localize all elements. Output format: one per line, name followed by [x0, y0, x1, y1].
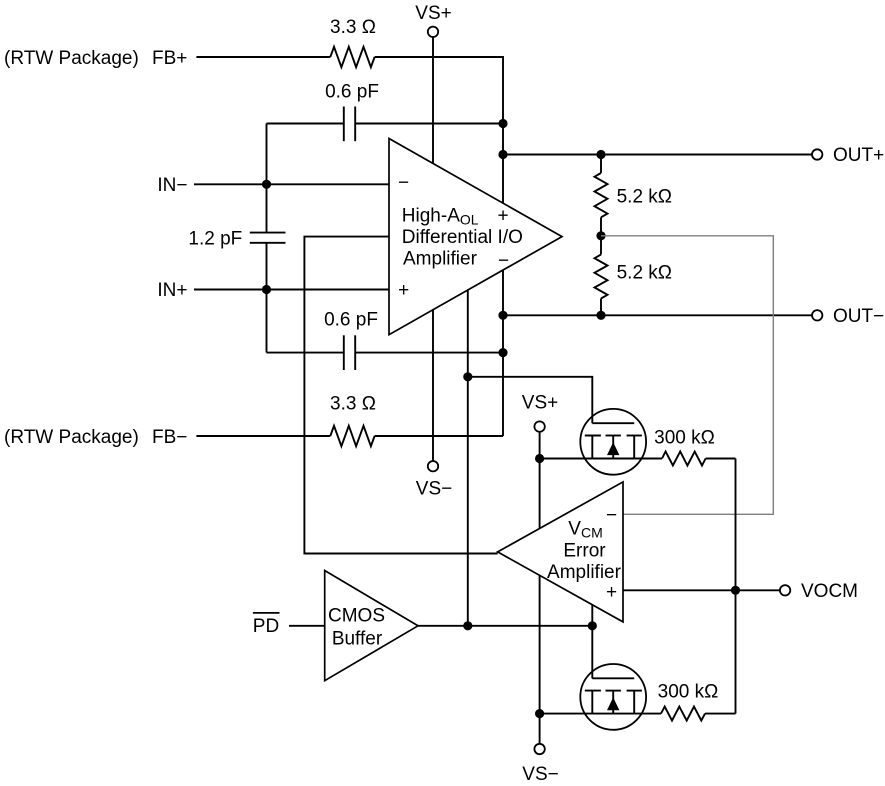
resistor R3 5.2 kohm	[600, 155, 602, 174]
capacitor C3 0.6 pF (plates)	[343, 335, 345, 370]
wire U2 enable / Q2 gate column	[591, 605, 593, 679]
junction FB+ node / OUT+ line	[498, 150, 507, 159]
svg-text:3.3 Ω: 3.3 Ω	[330, 17, 376, 38]
wire VS+ to Q1 source	[540, 458, 593, 460]
svg-text:(RTW Package): (RTW Package)	[4, 427, 139, 448]
svg-text:−: −	[498, 251, 509, 272]
svg-text:VS+: VS+	[522, 393, 558, 414]
wire IN- to U1 inverting input	[194, 183, 389, 185]
svg-text:0.6 pF: 0.6 pF	[325, 82, 379, 103]
wire OUT- node column from U1 - output down to FB-	[502, 270, 504, 436]
junction gate drive / Q1	[463, 372, 472, 381]
svg-text:Amplifier: Amplifier	[547, 562, 622, 583]
transistor Q2 (MOSFET switch, bottom)	[580, 664, 646, 730]
svg-text:(RTW Package): (RTW Package)	[4, 48, 139, 69]
junction buffer output / Q2 gate	[588, 621, 597, 630]
wire U1 power-down gate column	[467, 290, 469, 626]
wire VS- to Q2 source	[540, 713, 593, 715]
svg-text:+: +	[497, 206, 508, 227]
wire C1 left plate to IN- column	[267, 123, 344, 125]
svg-text:OUT+: OUT+	[833, 145, 884, 166]
resistor R6 300 kohm	[634, 713, 661, 715]
resistor R4 5.2 kohm	[600, 236, 602, 255]
svg-text:3.3 Ω: 3.3 Ω	[330, 394, 376, 415]
terminal OUT+	[812, 149, 822, 159]
terminal VOCM	[780, 585, 790, 595]
wire IN+ to U1 non-inverting input	[194, 289, 389, 291]
resistor R1 3.3 ohm	[330, 47, 374, 67]
svg-text:PD: PD	[253, 616, 279, 637]
svg-text:VS+: VS+	[415, 3, 451, 24]
svg-text:300 kΩ: 300 kΩ	[658, 682, 719, 703]
svg-text:IN−: IN−	[157, 175, 187, 196]
wire FB- input to R2	[196, 435, 330, 437]
wire U2 + input to VOCM terminal	[623, 589, 780, 591]
svg-text:VS−: VS−	[416, 479, 452, 500]
op-amp U1 High-AOL Differential I/O Amplifier	[389, 139, 562, 335]
svg-text:300 kΩ: 300 kΩ	[654, 428, 715, 449]
junction R3/R4 midpoint (VCM sense)	[596, 231, 605, 240]
wire VS+ to U1 top edge	[432, 37, 434, 163]
transistor Q1 (MOSFET switch, top)	[580, 409, 646, 475]
wire U3 output to gate nodes	[418, 625, 592, 627]
wire R1 to FB+/OUT+ node, corner down into U1 + output	[375, 57, 503, 203]
wire C3 right plate to FB-/OUT- node	[355, 352, 503, 354]
svg-text:VS−: VS−	[522, 764, 558, 785]
svg-text:5.2 kΩ: 5.2 kΩ	[617, 186, 672, 207]
wire R5 down to VOCM node	[735, 459, 737, 714]
junction FB+ / C1	[498, 119, 507, 128]
resistor R5 300 kohm	[634, 458, 662, 460]
junction IN+ / C2-C3 column	[262, 285, 271, 294]
wire OUT-	[503, 314, 812, 316]
junction VOCM	[731, 586, 740, 595]
junction VS+ / Q1 source	[535, 454, 544, 463]
wire gate drive to Q1 gate	[468, 377, 593, 423]
junction VS- / Q2 source	[535, 709, 544, 718]
buffer U3 CMOS Buffer	[325, 571, 418, 681]
wire FB+ input to R1	[196, 56, 330, 58]
svg-text:+: +	[398, 280, 409, 301]
wire OUT+	[503, 154, 812, 156]
svg-text:CMOS: CMOS	[328, 606, 385, 627]
capacitor C2 1.2 pF (plates)	[250, 232, 286, 234]
capacitor C1 0.6 pF (plates)	[343, 107, 345, 142]
wire PD input to U3	[289, 625, 325, 627]
junction U3 output / U1 gate column	[463, 621, 472, 630]
terminal VS+ (top)	[428, 27, 438, 37]
terminal VS- (bottom)	[534, 744, 544, 754]
svg-text:Differential I/O: Differential I/O	[402, 227, 523, 248]
wire VCM error-amp output to U1 VCM control input	[304, 237, 497, 554]
svg-text:Amplifier: Amplifier	[403, 248, 478, 269]
svg-text:Buffer: Buffer	[332, 629, 383, 650]
wire U1 to VS- terminal	[432, 310, 434, 461]
svg-text:Error: Error	[563, 540, 606, 561]
svg-text:VOCM: VOCM	[801, 581, 858, 602]
terminal VS- (below U1)	[428, 461, 438, 471]
wire C3 left plate to IN+ column	[267, 352, 344, 354]
wire R2 to FB- node	[375, 435, 503, 437]
junction OUT+ / R3	[596, 150, 605, 159]
wire VCM sense to U2 inverting input (grey)	[601, 236, 773, 515]
svg-text:−: −	[398, 173, 409, 194]
svg-text:5.2 kΩ: 5.2 kΩ	[617, 262, 672, 283]
wire IN- column upper segment	[266, 124, 268, 233]
svg-text:+: +	[606, 582, 617, 603]
svg-text:1.2 pF: 1.2 pF	[188, 229, 242, 250]
svg-text:FB−: FB−	[152, 427, 187, 448]
wire U2 bottom edge to VS- rail	[539, 575, 541, 744]
wire C1 right plate to FB+ node	[355, 123, 503, 125]
junction C3 / FB- node	[498, 348, 507, 357]
svg-text:IN+: IN+	[157, 280, 187, 301]
junction IN- / C1-C2 column	[262, 180, 271, 189]
wire VS+ rail to U2 top edge	[539, 432, 541, 529]
op-amp U2 VCM Error Amplifier	[498, 482, 623, 622]
resistor R2 3.3 ohm	[330, 426, 374, 446]
svg-text:FB+: FB+	[152, 48, 187, 69]
terminal VS+ (error amp)	[534, 421, 544, 431]
svg-text:0.6 pF: 0.6 pF	[324, 310, 378, 331]
wire IN+ column lower segment	[266, 243, 268, 353]
junction OUT- / R4	[596, 311, 605, 320]
junction FB- node / OUT- line	[498, 311, 507, 320]
svg-text:OUT−: OUT−	[833, 306, 884, 327]
terminal OUT-	[812, 310, 822, 320]
svg-text:−: −	[606, 505, 617, 526]
